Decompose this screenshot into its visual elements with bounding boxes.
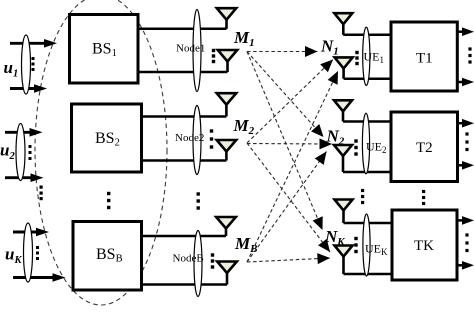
vertical dots between T boxes (422, 190, 425, 193)
vertical dots between TK outputs (465, 233, 468, 236)
terminal box T2 (391, 112, 458, 182)
base station box BS_1 (70, 15, 139, 84)
output arrow TK top (457, 219, 464, 222)
svg-text:Node1: Node1 (176, 43, 205, 55)
vertical dots between node columns (197, 192, 200, 195)
vertical dots between BS boxes (107, 192, 110, 195)
vertical dots between T2 outputs (465, 132, 468, 135)
svg-text:uK: uK (5, 245, 22, 267)
input arrow top u_1 (10, 42, 46, 45)
svg-text:N1: N1 (320, 37, 339, 58)
wire BS_2 to Node2 bottom (142, 159, 227, 162)
vertical dots between NodeB antennas (211, 253, 214, 256)
vertical dots between u_K arrows (36, 246, 39, 249)
wire UE_1 bottom to T1 (344, 77, 393, 80)
dashed channel arrow M1 to N2 (247, 52, 324, 138)
wire BS_1 to Node1 top (138, 28, 227, 31)
input arrow bottom u_K (13, 276, 55, 279)
receive lens UE_2 (362, 113, 369, 174)
svg-text:UE2: UE2 (366, 140, 387, 156)
output arrow T1 top (457, 30, 464, 33)
input arrow bottom u_2 (5, 176, 33, 179)
dashed ellipse enclosing base stations (35, 0, 167, 305)
transmit antenna Node2 bottom (217, 140, 237, 152)
svg-text:NodeB: NodeB (173, 253, 204, 265)
transmit antenna Node1 bottom (218, 50, 237, 62)
svg-text:T1: T1 (416, 51, 433, 67)
input combiner lens u_1 (22, 35, 31, 94)
vertical dots between Node2 antennas (210, 129, 213, 132)
transmit antenna Node2 top (217, 93, 237, 105)
svg-text:T2: T2 (416, 140, 433, 156)
svg-text:UE1: UE1 (364, 50, 385, 66)
dashed channel arrow MB to N1 (247, 71, 338, 262)
dashed channel arrow MB to NK (247, 258, 330, 262)
receive lens UE_K (363, 214, 370, 276)
wire BS_1 to Node1 bottom (138, 71, 228, 74)
wire BS_B to NodeB bottom (142, 283, 228, 286)
wire UE_K top to TK (344, 222, 395, 225)
wire UE_1 top to T1 (343, 34, 393, 37)
svg-text:M2: M2 (233, 116, 255, 137)
transmit antenna NodeB bottom (217, 262, 237, 274)
terminal box TK (392, 210, 457, 280)
wire UE_2 top to T2 (343, 120, 393, 123)
transmit antenna Node1 top (217, 8, 236, 20)
vertical dots between T1 outputs (468, 47, 471, 50)
dashed channel arrow M1 to N1 (247, 51, 318, 53)
dashed channel arrow M1 to NK (247, 52, 323, 231)
output arrow T2 bottom (458, 164, 465, 167)
wire BS_2 to Node2 top (142, 115, 227, 118)
vertical dots between UE_2 antennas (354, 139, 357, 142)
receive antenna UE_1 top (334, 13, 352, 24)
dashed channel arrow M2 to N2 (247, 143, 332, 146)
svg-text:u1: u1 (4, 58, 19, 80)
svg-text:Node2: Node2 (175, 132, 204, 144)
input combiner lens u_K (24, 223, 33, 282)
vertical dots between UE_1 antennas (355, 51, 358, 54)
output arrow T1 bottom (457, 81, 464, 84)
receive antenna UE_2 top (334, 100, 352, 111)
input arrow top u_2 (5, 131, 32, 134)
output arrow T2 top (458, 122, 465, 125)
svg-text:UEK: UEK (365, 242, 388, 258)
vertical dots between u_2 arrows (29, 145, 32, 148)
node lens Node1 (193, 10, 201, 92)
wire UE_2 bottom to T2 (343, 171, 393, 174)
node lens Node2 (193, 106, 201, 175)
base station box BS_B (73, 222, 142, 291)
svg-text:N2: N2 (326, 127, 345, 148)
transmit antenna NodeB top (216, 217, 236, 229)
base station box BS_2 (72, 104, 142, 172)
dashed channel arrow M2 to NK (247, 143, 330, 252)
vertical dots between Node1 antennas (212, 49, 215, 52)
vertical dots between UE_K antennas (354, 237, 357, 240)
dashed channel arrow M2 to N1 (247, 60, 333, 144)
receive antenna UE_K bottom (335, 246, 353, 257)
vertical dots between u_1 arrows (32, 57, 35, 60)
wire BS_B to NodeB top (142, 235, 227, 238)
output arrow TK bottom (457, 264, 464, 267)
vertical dots between input groups (40, 186, 43, 189)
input arrow bottom u_1 (10, 87, 36, 90)
receive antenna UE_K top (335, 200, 353, 211)
terminal box T1 (391, 22, 457, 91)
svg-text:TK: TK (414, 238, 434, 254)
svg-text:u2: u2 (0, 141, 15, 163)
wire UE_K bottom to TK (344, 273, 395, 276)
input arrow top u_K (13, 231, 38, 234)
svg-text:M1: M1 (233, 28, 255, 49)
svg-text:NK: NK (324, 227, 345, 248)
node lens NodeB (194, 231, 202, 297)
vertical dots between UE columns (361, 189, 364, 192)
receive lens UE_1 (363, 27, 370, 85)
input combiner lens u_2 (16, 124, 25, 181)
receive antenna UE_1 bottom (335, 57, 353, 68)
dashed channel arrow MB to N2 (247, 152, 327, 263)
receive antenna UE_2 bottom (334, 145, 352, 156)
